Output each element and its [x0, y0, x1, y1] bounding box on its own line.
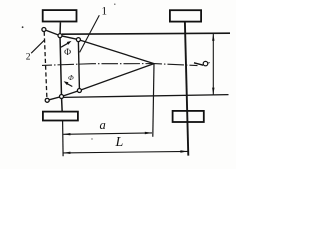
- wire convergence construction line bottom: [79, 64, 154, 91]
- wheel front-left: [43, 10, 77, 21]
- angle arrow top: [61, 42, 70, 47]
- wire left dimension extension line: [62, 121, 65, 156]
- wheel rear-right-top: [170, 10, 201, 21]
- angle arrow bottom: [66, 83, 72, 86]
- tie rod end joint top: [76, 38, 80, 42]
- wheel front-left-bottom: [43, 112, 78, 121]
- kingpin joint bottom: [60, 95, 64, 99]
- wire front axle assembly line: [60, 22, 63, 121]
- svg-text:a: a: [99, 118, 105, 132]
- label b1 (drawn as shapes, rotated italic b with subscript): [194, 63, 203, 65]
- wire b1 bottom extension line: [64, 95, 229, 98]
- wire alternative tie rod dashed 2: [44, 32, 47, 99]
- wire steering arm top (lever through kingpin): [44, 30, 79, 40]
- wire vertical from convergence point: [153, 64, 154, 137]
- svg-text:Φ: Φ: [68, 73, 74, 82]
- speck near label 1: [114, 3, 115, 4]
- node centerline dash-dot: [42, 64, 198, 66]
- speck below L: [91, 138, 92, 139]
- dimension a line with arrows: [63, 133, 152, 134]
- wire rear axle line: [185, 22, 188, 155]
- svg-text:1: 1: [101, 6, 107, 18]
- dimension L line with arrows: [63, 151, 187, 153]
- svg-text:Φ: Φ: [64, 48, 71, 58]
- tie rod end joint bottom: [77, 89, 81, 93]
- joint alternative top: [42, 28, 46, 32]
- svg-text:L: L: [115, 135, 124, 150]
- svg-text:2: 2: [26, 52, 31, 62]
- label 1 leader line: [80, 15, 100, 52]
- kingpin joint top: [58, 34, 62, 38]
- wire tie rod 1: [78, 42, 79, 89]
- wire convergence construction line top: [78, 40, 154, 64]
- label 2 leader line: [31, 40, 44, 53]
- wire steering arm bottom (lever through kingpin): [47, 91, 79, 101]
- wheel rear-right-bottom: [173, 111, 204, 122]
- wire b1 top extension line: [62, 33, 230, 34]
- dimension b1 line with arrows: [212, 34, 214, 95]
- joint alternative bottom: [45, 98, 49, 102]
- speck top-left: [22, 26, 24, 28]
